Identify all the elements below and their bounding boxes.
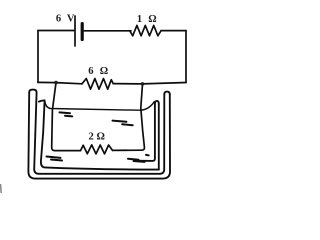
water dash marks upper-left: [60, 111, 71, 114]
wire R 1ohm to top-right corner: [161, 30, 186, 32]
node junction right: [141, 82, 145, 86]
vessel outer jacket inner stroke: [34, 92, 164, 174]
water dash marks lower-right: [128, 159, 139, 160]
wire left vertical: [37, 31, 39, 83]
vessel outer jacket outer stroke: [28, 92, 170, 178]
inner cup right wall outer stroke: [158, 104, 160, 170]
vessel jacket right wall top cap: [164, 92, 170, 95]
node junction left: [54, 81, 58, 85]
water dash marks lower-left: [47, 157, 61, 158]
vessel jacket left wall top cap: [29, 90, 36, 93]
water dash marks mid-right: [113, 121, 127, 122]
water surface line: [45, 101, 154, 110]
wire middle-right segment: [113, 83, 186, 84]
battery B1 long plate (+): [74, 16, 76, 46]
svg-text:2Ω: 2Ω: [89, 132, 105, 143]
wire drop left into vessel: [52, 83, 81, 151]
inner cup left wall and bottom: [41, 100, 159, 169]
resistor 1 ohm zigzag: [130, 25, 161, 35]
wire middle-left segment: [38, 82, 82, 83]
wire top-left segment: [38, 30, 74, 32]
wire drop right into vessel: [113, 84, 145, 150]
battery B1 short thick plate (-): [81, 24, 84, 40]
inner cup right wall top cap: [155, 101, 159, 104]
cup rim hook left: [39, 100, 45, 101]
inner cup right wall inner stroke and inner bottom: [134, 104, 155, 161]
water dash small right: [146, 154, 149, 157]
resistor 6 ohm zigzag: [82, 79, 113, 90]
scan smudge bottom-left edge: [0, 184, 2, 193]
resistor 2 ohm zigzag: [81, 145, 113, 154]
wire right vertical: [185, 31, 187, 83]
wire battery to R 1ohm: [84, 30, 131, 32]
